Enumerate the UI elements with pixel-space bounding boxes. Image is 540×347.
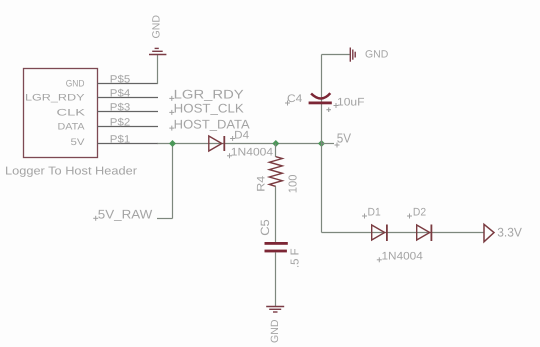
junction 5V xyxy=(318,140,325,147)
pin P$4 xyxy=(98,97,159,99)
svg-text:1N4004: 1N4004 xyxy=(382,250,423,262)
svg-text:Logger To Host Header: Logger To Host Header xyxy=(5,166,137,178)
wire junction to R4 top xyxy=(275,144,277,158)
label cross 10uF xyxy=(334,103,339,108)
svg-text:5V: 5V xyxy=(71,137,86,148)
svg-text:.5 F: .5 F xyxy=(290,249,302,269)
wire to D1 anode xyxy=(322,232,485,234)
ground symbol bottom xyxy=(266,307,284,313)
svg-text:C5: C5 xyxy=(258,219,272,236)
header box Logger To Host Header xyxy=(24,69,98,158)
label cross 1N4004 D4 xyxy=(227,153,232,158)
capacitor C5 xyxy=(265,242,288,252)
svg-text:10uF: 10uF xyxy=(337,96,365,108)
wire stub to 5V label xyxy=(322,143,335,145)
label cross 5V_RAW xyxy=(93,216,98,221)
ground symbol top xyxy=(149,48,166,54)
label cross 5V xyxy=(335,143,340,148)
diode D1 xyxy=(372,225,387,242)
svg-text:DATA: DATA xyxy=(58,122,86,133)
label cross D4 xyxy=(230,136,235,141)
wire to right GND xyxy=(322,54,350,56)
pin P$3 xyxy=(98,111,159,113)
junction at P$1 xyxy=(169,140,176,147)
svg-text:P$3: P$3 xyxy=(110,101,131,113)
label cross 1N4004 D1 xyxy=(377,257,382,262)
svg-text:P$4: P$4 xyxy=(110,87,131,99)
svg-text:D4: D4 xyxy=(234,130,249,142)
svg-text:HOST_CLK: HOST_CLK xyxy=(174,102,245,116)
pin P$1 xyxy=(98,143,159,145)
svg-text:3.3V: 3.3V xyxy=(497,226,522,240)
junction R4 xyxy=(272,140,279,147)
svg-text:P$2: P$2 xyxy=(110,116,131,128)
svg-text:GND: GND xyxy=(150,15,162,39)
supply arrow 3.3V xyxy=(484,224,494,242)
ground symbol right xyxy=(350,48,355,62)
wire 5V_RAW horizontal xyxy=(157,218,173,220)
svg-text:P$5: P$5 xyxy=(110,73,131,85)
wire 5V_RAW vertical xyxy=(172,144,174,219)
svg-text:D1: D1 xyxy=(368,207,381,219)
wire R4 bottom to C5 xyxy=(275,186,277,242)
wire C4 to GND (behind cap) xyxy=(321,55,323,144)
svg-text:LGR_RDY: LGR_RDY xyxy=(174,87,245,101)
polarity plus C4 xyxy=(326,107,331,112)
diode D2 xyxy=(417,225,432,242)
svg-text:1N4004: 1N4004 xyxy=(231,147,273,159)
svg-text:5V_RAW: 5V_RAW xyxy=(98,208,153,222)
svg-text:R4: R4 xyxy=(256,176,268,192)
svg-text:P$1: P$1 xyxy=(110,133,131,145)
svg-text:100: 100 xyxy=(287,174,299,193)
label cross C4 xyxy=(285,101,290,106)
svg-text:GND: GND xyxy=(269,319,281,343)
svg-text:LGR_RDY: LGR_RDY xyxy=(25,93,85,104)
pin P$2 xyxy=(98,126,159,128)
pin P$5 xyxy=(98,83,159,85)
wire 5V junction down to 3.3V rail xyxy=(321,144,323,233)
svg-text:GND: GND xyxy=(66,78,85,89)
wire GND net from P$5 up xyxy=(157,55,159,85)
wire net P$1 to D4 xyxy=(158,143,322,145)
label cross HOST_CLK xyxy=(169,110,174,115)
label cross LGR_RDY xyxy=(169,96,174,101)
svg-text:CLK: CLK xyxy=(57,107,87,118)
svg-text:5V: 5V xyxy=(337,130,352,145)
label cross HOST_DATA xyxy=(169,126,174,131)
svg-text:C4: C4 xyxy=(287,93,302,105)
label cross D2 xyxy=(407,214,412,219)
label cross D1 xyxy=(362,214,367,219)
capacitor C4 xyxy=(309,93,332,104)
svg-text:D2: D2 xyxy=(413,207,426,219)
resistor R4 xyxy=(269,157,282,187)
diode D4 xyxy=(209,136,225,151)
wire C5 bottom to GND xyxy=(275,252,277,306)
svg-text:GND: GND xyxy=(365,49,389,61)
